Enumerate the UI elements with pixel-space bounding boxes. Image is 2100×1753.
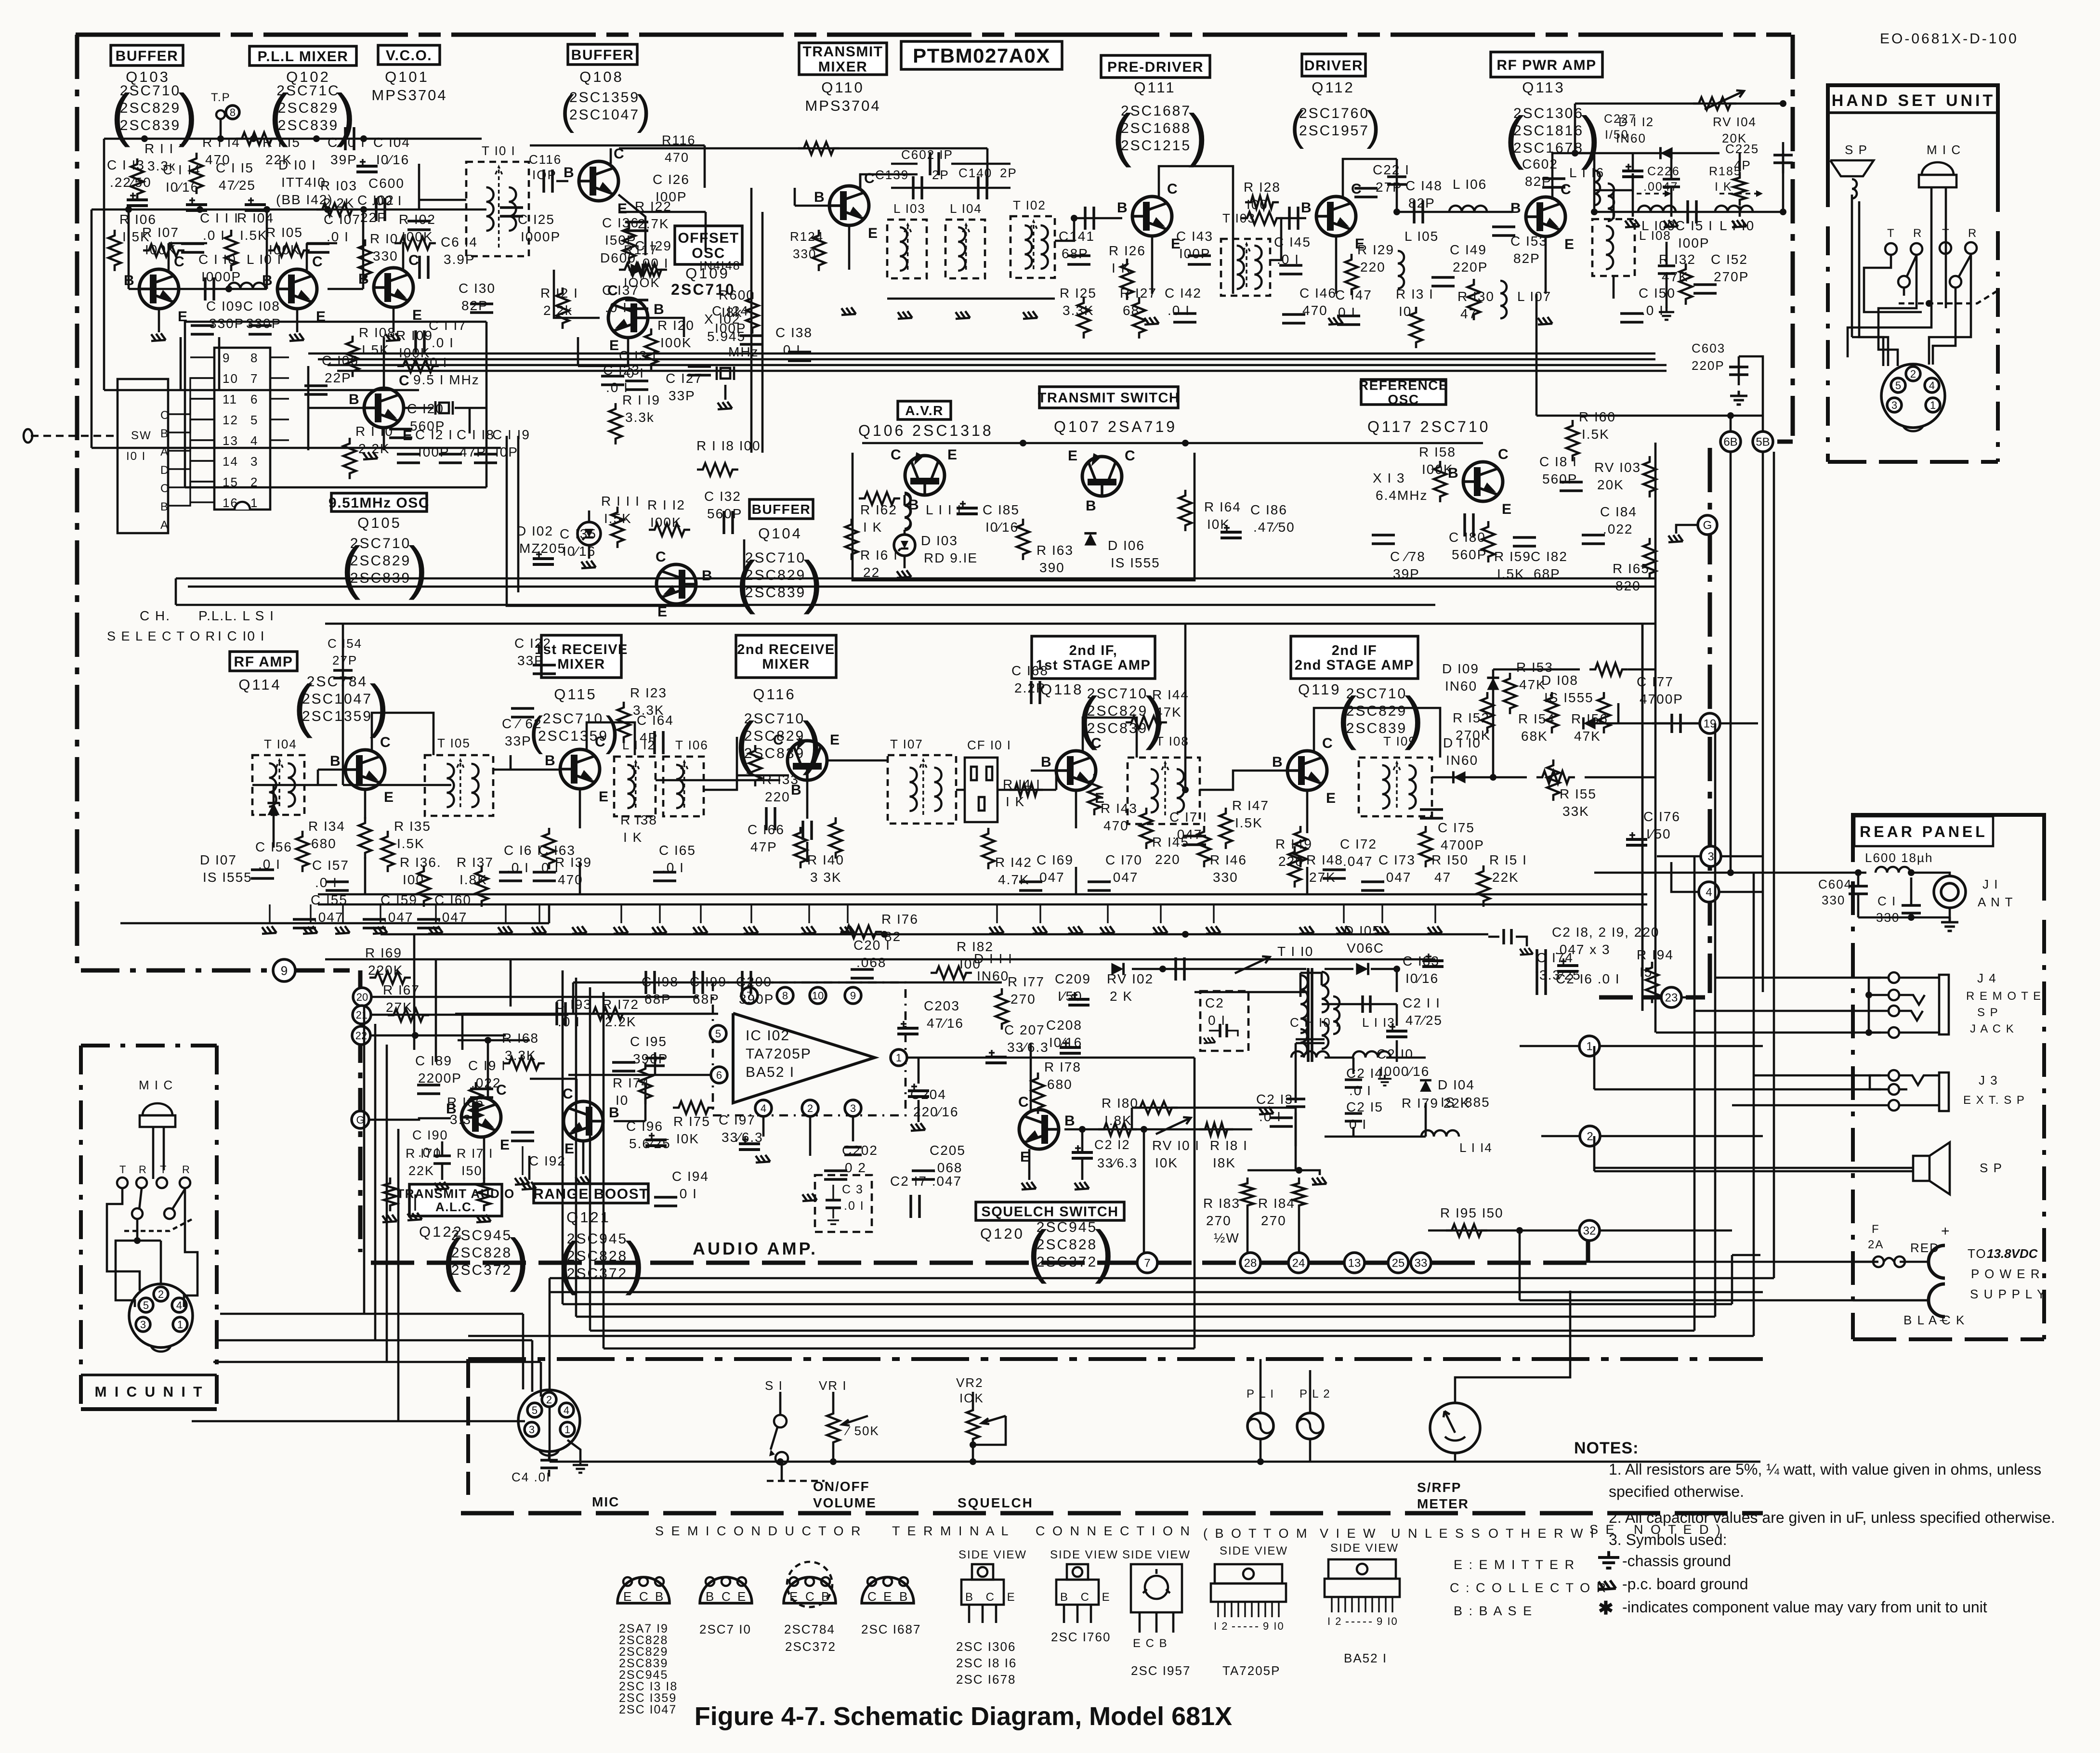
svg-text:47P: 47P — [459, 445, 486, 459]
svg-text:E: E — [609, 338, 620, 353]
svg-text:Q112: Q112 — [1312, 79, 1355, 96]
capacitor C178 — [1372, 535, 1426, 581]
wire T106 out to Q116 — [704, 775, 737, 790]
svg-text:L I I0: L I I0 — [1719, 218, 1755, 233]
svg-text:C I I8: C I I8 — [457, 427, 495, 442]
resistor R109 — [396, 328, 439, 372]
lamp PL1 — [1247, 1359, 1274, 1462]
svg-text:47K: 47K — [1574, 729, 1601, 744]
node 21 — [353, 1006, 568, 1024]
svg-text:T I09: T I09 — [1383, 734, 1417, 748]
label SQUELCH — [958, 1495, 1034, 1510]
label Q110 — [821, 79, 865, 96]
block title 2nd RECEIVE MIXER (Q116) — [736, 635, 836, 678]
resistor R115 — [236, 132, 301, 167]
svg-text:C I07: C I07 — [324, 212, 361, 227]
svg-text:R I47: R I47 — [1232, 798, 1269, 813]
transistor Q113 — [1510, 182, 1575, 252]
svg-text:C I02: C I02 — [357, 193, 394, 208]
svg-text:I00P: I00P — [715, 321, 747, 336]
power supply connection — [1853, 1223, 2046, 1327]
svg-text:D: D — [160, 464, 170, 477]
svg-text:22: 22 — [863, 565, 880, 580]
svg-text:8: 8 — [250, 351, 258, 365]
capacitor C108 — [243, 299, 281, 334]
wire Q115 collector — [587, 722, 635, 755]
svg-text:P.L.L. L S I: P.L.L. L S I — [198, 608, 275, 623]
node IC pin 10 — [810, 987, 826, 1004]
svg-text:220: 220 — [1360, 260, 1386, 275]
svg-text:C I92: C I92 — [529, 1153, 566, 1168]
wire rear J3 line3 — [1732, 1104, 1889, 1107]
svg-text:C200: C200 — [736, 974, 772, 989]
resistor R151 — [1477, 852, 1527, 907]
IC PLL LSI IC101 box — [214, 348, 270, 510]
wire front panel rail — [550, 1458, 1760, 1465]
capacitor C201 — [851, 938, 891, 978]
transformer T107 — [888, 737, 956, 824]
resistor R177 — [996, 974, 1045, 1030]
resistor R127 — [1120, 286, 1157, 339]
node 20 — [353, 988, 698, 1006]
wire mid rail 1 — [176, 577, 1655, 580]
transistor Q106 — [891, 447, 958, 513]
resistor R154 — [1518, 692, 1558, 744]
svg-text:47: 47 — [1434, 870, 1451, 885]
svg-text:C2 I I: C2 I I — [1403, 995, 1441, 1010]
capacitor C174 — [1536, 950, 1581, 982]
svg-text:I0⁄16: I0⁄16 — [1405, 971, 1439, 986]
diode D102 zener circle — [577, 510, 601, 568]
resistor R146 — [1198, 826, 1247, 885]
capacitor C3 dashed box — [815, 1175, 872, 1232]
wire Q102 base drop — [266, 209, 268, 289]
svg-text:): ) — [1188, 102, 1208, 168]
svg-text:C226: C226 — [1647, 165, 1680, 178]
svg-text:D I08: D I08 — [1541, 673, 1578, 688]
svg-text:C140: C140 — [958, 166, 992, 180]
inductor L111 — [905, 493, 962, 530]
svg-text:C I08: C I08 — [243, 299, 280, 314]
svg-text:REAR PANEL: REAR PANEL — [1860, 823, 1988, 840]
transformer T104 — [252, 737, 304, 815]
svg-text:4700P: 4700P — [1441, 837, 1484, 852]
svg-text:C22 I: C22 I — [1373, 162, 1410, 177]
label Q116 types — [735, 710, 822, 775]
resistor R179 label — [1402, 1096, 1470, 1111]
svg-text:T.P: T.P — [211, 91, 231, 104]
svg-text:C I94: C I94 — [672, 1169, 709, 1184]
connector handset 5-pin DIN — [1881, 364, 1945, 431]
svg-text:.0 I: .0 I — [844, 1199, 865, 1213]
capacitor C113 — [107, 157, 152, 206]
svg-text:E: E — [1502, 501, 1512, 517]
svg-text:C: C — [399, 373, 410, 389]
svg-text:C I25: C I25 — [518, 212, 555, 227]
svg-text:C I6 I: C I6 I — [504, 843, 542, 858]
capacitor C175 — [1420, 810, 1484, 852]
node G right — [1668, 515, 1717, 542]
svg-text:I00K: I00K — [660, 335, 692, 350]
capacitor C164 — [637, 713, 674, 754]
transformer T103 — [1221, 211, 1270, 296]
resistor R104 — [225, 210, 274, 271]
svg-text:C: C — [160, 482, 170, 495]
svg-text:SIDE VIEW: SIDE VIEW — [1330, 1542, 1399, 1555]
wire selector to IC links — [168, 378, 214, 506]
wire C603 tap — [1692, 341, 1763, 416]
svg-text:7: 7 — [250, 371, 258, 386]
wire Q112 collector — [1343, 159, 1406, 212]
svg-text:C I55: C I55 — [311, 892, 348, 907]
mic unit wiring — [107, 1188, 197, 1307]
svg-text:C I53: C I53 — [1510, 234, 1548, 249]
capacitor C191 — [468, 1058, 506, 1098]
wire Q101 emitter ground — [386, 307, 400, 341]
svg-text:.0 I: .0 I — [675, 1186, 697, 1201]
label Q121 types — [558, 1230, 644, 1295]
capacitor C177 — [1637, 674, 1683, 706]
label Q103 types — [111, 82, 197, 147]
capacitor C137 — [602, 283, 648, 315]
inductor L103 tank — [887, 201, 927, 278]
svg-text:3: 3 — [529, 1424, 535, 1436]
capacitor C198 — [642, 974, 679, 1007]
label Q111 types — [1112, 102, 1208, 168]
svg-text:IN60: IN60 — [977, 968, 1009, 983]
resistor R137 — [457, 855, 494, 907]
svg-text:C208: C208 — [1046, 1018, 1082, 1033]
wire J1 feed — [1594, 872, 1877, 874]
wire mid rail 4 — [325, 623, 1655, 625]
svg-text:6B: 6B — [1723, 436, 1737, 449]
svg-text:47⁄25: 47⁄25 — [219, 178, 256, 193]
wire Q102 emitter ground — [289, 309, 304, 341]
svg-text:R116: R116 — [662, 133, 696, 147]
svg-text:C I09: C I09 — [206, 299, 243, 314]
svg-text:22K: 22K — [408, 1164, 434, 1178]
svg-text:C I90: C I90 — [412, 1128, 448, 1142]
svg-text:C I64: C I64 — [637, 713, 674, 728]
label EO-0681X-D-100 — [1880, 31, 2019, 47]
svg-text:C I30: C I30 — [459, 281, 496, 296]
svg-text:.047: .047 — [1108, 870, 1139, 885]
svg-text:I00P: I00P — [1678, 235, 1710, 250]
svg-text:D I07: D I07 — [200, 852, 237, 867]
wire PLL IC pin stubs — [190, 357, 289, 502]
svg-text:R I38: R I38 — [620, 812, 657, 827]
label Q109 type — [671, 281, 735, 298]
svg-text:AUDIO AMP.: AUDIO AMP. — [693, 1239, 818, 1258]
wire left border dash-dot line — [75, 35, 79, 970]
wire bottom dist 5 — [590, 856, 1694, 1331]
svg-text:220: 220 — [1155, 852, 1181, 867]
svg-text:L I09: L I09 — [1641, 218, 1676, 233]
resistor R153 — [1504, 660, 1553, 714]
resistor R147 — [1220, 798, 1269, 849]
capacitor C135 — [533, 526, 597, 564]
svg-text:B: B — [330, 753, 341, 769]
wire RF out chain — [1591, 153, 1786, 223]
resistor R174 — [613, 1063, 652, 1108]
legend label SIDE VIEW 3 — [1122, 1548, 1191, 1561]
speaker SP handset — [1830, 143, 1874, 198]
svg-text:2SC1047: 2SC1047 — [569, 107, 640, 123]
svg-text:1. All resistors are 5%, ¼ wat: 1. All resistors are 5%, ¼ watt, with va… — [1609, 1461, 2041, 1478]
svg-text:C: C — [656, 549, 667, 565]
inductor L116 — [1569, 165, 1614, 221]
wire Q114 collector — [372, 713, 433, 755]
legend package 2SA719 group — [617, 1577, 678, 1716]
svg-text:-p.c. board ground: -p.c. board ground — [1622, 1575, 1748, 1593]
capacitor C214 — [1346, 1066, 1383, 1098]
label P.L.L. LSI IC 101 — [198, 608, 275, 643]
svg-text:2SC I306: 2SC I306 — [956, 1639, 1016, 1654]
wire 32 line — [1428, 1227, 1732, 1300]
svg-text:5.6⁄25: 5.6⁄25 — [629, 1136, 671, 1151]
capacitor C2 dashed box — [1200, 991, 1248, 1051]
wire Q112 out to Q113 — [1393, 200, 1512, 223]
svg-text:D I09: D I09 — [1442, 661, 1479, 676]
svg-text:F: F — [1872, 1223, 1880, 1236]
svg-text:R I69: R I69 — [365, 945, 402, 960]
svg-text:C I93: C I93 — [555, 997, 592, 1012]
svg-text:C I8 I: C I8 I — [1539, 454, 1577, 469]
svg-text:4: 4 — [1706, 886, 1712, 899]
label Q108 types — [561, 87, 651, 133]
svg-text:B : B A S E: B : B A S E — [1454, 1604, 1533, 1618]
svg-text:C I I7: C I I7 — [429, 318, 467, 333]
svg-text:330: 330 — [1822, 893, 1845, 907]
svg-text:470: 470 — [1103, 818, 1129, 833]
diode D111 — [974, 951, 1013, 983]
svg-text:2SC7 I0: 2SC7 I0 — [699, 1622, 751, 1636]
wire Q103 emitter ground — [151, 309, 166, 341]
svg-text:BA52 I: BA52 I — [746, 1064, 795, 1080]
capacitor C182 — [1513, 537, 1568, 581]
resistor R144 — [1126, 687, 1189, 729]
svg-text:MIXER: MIXER — [762, 657, 810, 672]
panel HAND SET UNIT box — [1828, 85, 1998, 462]
inductor L106 — [1453, 177, 1487, 192]
resistor R167 — [383, 982, 429, 1021]
label Q112 types — [1290, 103, 1380, 149]
resistor R600 — [719, 288, 759, 334]
wire Q110 base feed — [795, 188, 829, 206]
svg-text:6: 6 — [250, 392, 258, 406]
svg-text:TA7205P: TA7205P — [746, 1046, 812, 1062]
svg-text:(: ( — [1505, 105, 1524, 170]
capacitor C114 — [163, 162, 207, 210]
svg-text:SIDE VIEW: SIDE VIEW — [1122, 1548, 1191, 1561]
svg-text:C2 I0: C2 I0 — [1377, 1047, 1414, 1061]
legend package 2SC1687 — [861, 1577, 921, 1636]
resistor R162 — [859, 492, 900, 535]
svg-text:(: ( — [1337, 685, 1357, 750]
svg-text:R I63: R I63 — [1037, 543, 1074, 558]
svg-text:470: 470 — [1302, 303, 1328, 318]
connector mic unit 5-pin DIN — [129, 1284, 193, 1351]
capacitor C183 — [1403, 954, 1444, 986]
svg-text:2SC I678: 2SC I678 — [956, 1672, 1016, 1687]
svg-text:C I26: C I26 — [653, 172, 690, 187]
svg-text:C I37: C I37 — [602, 283, 639, 298]
wire R117 resistor — [619, 243, 662, 290]
label Q120 types — [1027, 1218, 1114, 1284]
wire rear J4 line2 — [1870, 994, 1889, 996]
resistor R156 — [1571, 692, 1610, 744]
svg-text:C I04: C I04 — [373, 135, 410, 150]
capacitor C153 — [1492, 227, 1548, 266]
wire squelch feed right — [0, 0, 0, 0]
svg-text:C I86: C I86 — [1250, 502, 1287, 517]
wire Q116 output — [827, 760, 965, 790]
svg-text:R I42: R I42 — [995, 855, 1032, 870]
svg-text:J A C K: J A C K — [1970, 1022, 2015, 1035]
svg-text:33: 33 — [1415, 1257, 1428, 1270]
svg-text:3.9P: 3.9P — [444, 252, 475, 267]
block title RF AMP (Q114) — [230, 652, 297, 671]
block title BUFFER (Q104) — [749, 499, 813, 519]
svg-text:220P: 220P — [1692, 358, 1725, 373]
svg-text:20K: 20K — [1722, 131, 1747, 145]
label Q113 — [1522, 79, 1565, 96]
svg-text:E: E — [883, 1589, 892, 1604]
resistor R195 — [1440, 1205, 1504, 1237]
resistor R168 — [502, 1031, 545, 1070]
label Q119 types — [1337, 685, 1424, 750]
svg-text:R I84: R I84 — [1258, 1196, 1295, 1211]
label Q108 — [579, 68, 624, 85]
resistor R129 — [1345, 242, 1394, 295]
svg-text:ITT4I0: ITT4I0 — [281, 175, 326, 190]
svg-text:.0 I: .0 I — [1349, 1083, 1372, 1098]
svg-text:4700P: 4700P — [1640, 692, 1683, 706]
label Q121 — [566, 1209, 611, 1226]
svg-text:O T H E R W I: O T H E R W I — [1488, 1526, 1596, 1541]
svg-text:C600: C600 — [368, 176, 405, 191]
label Q105 — [357, 514, 402, 531]
resistor R102 — [394, 212, 436, 249]
capacitor C101 — [328, 127, 366, 167]
svg-text:R I04: R I04 — [237, 210, 274, 225]
block title OFFSET OSC (Q109) — [675, 226, 742, 264]
label notes text — [1609, 1461, 2055, 1548]
wire Q122 collector — [485, 1037, 491, 1098]
wire PCB boundary right (G bus) — [1599, 448, 1710, 997]
svg-text:2200P: 2200P — [418, 1071, 462, 1086]
resistor R172 — [602, 997, 639, 1029]
wire 2nd IF feedback — [1182, 624, 1189, 793]
capacitor C211 — [1403, 995, 1443, 1028]
label Q110 type — [805, 97, 880, 114]
legend label SIDE VIEW 1 — [958, 1548, 1027, 1561]
svg-text:Figure 4-7. Schematic Diagram,: Figure 4-7. Schematic Diagram, Model 681… — [695, 1702, 1232, 1731]
wire right bundle x3470 — [0, 0, 0, 0]
svg-text:I00P: I00P — [1179, 246, 1211, 261]
resistor R140 — [794, 827, 844, 885]
svg-text:RV I0 I: RV I0 I — [1152, 1138, 1200, 1153]
block title TRANSMIT AUDIO A.L.C. (Q122) — [396, 1184, 514, 1216]
svg-text:C: C — [1091, 735, 1102, 751]
wire Q118 emitter — [1075, 790, 1077, 894]
wire rear SP line — [1594, 1136, 1913, 1171]
block title PTBM027A0X — [901, 41, 1062, 69]
label X103 — [1373, 471, 1428, 503]
resistor R150 — [1419, 826, 1469, 885]
wire bottom dist 7 — [604, 1129, 1194, 1348]
diode D109 — [1442, 661, 1479, 693]
capacitor C210 — [1377, 1047, 1430, 1079]
legend package TA7205P — [1211, 1564, 1286, 1678]
capacitor C138 — [775, 325, 813, 361]
svg-text:47K: 47K — [1155, 705, 1182, 720]
svg-text:16: 16 — [223, 496, 238, 510]
svg-text:T I06: T I06 — [675, 738, 709, 752]
svg-text:D I0 I: D I0 I — [278, 157, 316, 172]
svg-text:C: C — [160, 409, 170, 422]
svg-text:L I03: L I03 — [893, 201, 926, 216]
node IC pin 8 — [777, 987, 793, 1004]
svg-text:B: B — [545, 753, 556, 769]
resistor R170 — [382, 1146, 442, 1222]
label Q122 — [419, 1223, 463, 1240]
svg-text:PRE-DRIVER: PRE-DRIVER — [1107, 59, 1204, 75]
svg-text:I.5K: I.5K — [1497, 566, 1525, 581]
resistor R106 — [108, 212, 157, 271]
svg-text:470: 470 — [665, 150, 689, 165]
label Q117 type — [1367, 418, 1490, 435]
wire T110 secondary out — [1322, 995, 1407, 1062]
resistor R112 — [647, 497, 690, 536]
svg-text:8: 8 — [230, 106, 236, 118]
wire pin1 output — [907, 1058, 1194, 1129]
potentiometer VR1 volume — [767, 1378, 879, 1481]
svg-text:C I42: C I42 — [1165, 286, 1202, 301]
svg-text:D I02: D I02 — [516, 523, 553, 538]
potentiometer VR2 squelch — [956, 1375, 1006, 1462]
svg-text:R I7 I: R I7 I — [457, 1146, 494, 1161]
svg-text:E: E — [384, 789, 394, 805]
svg-text:E: E — [830, 732, 840, 748]
resistor R131 — [1396, 287, 1434, 348]
svg-text:4.7K: 4.7K — [998, 872, 1030, 887]
svg-text:R I72: R I72 — [602, 997, 639, 1012]
resistor R121 — [540, 286, 578, 329]
wire Q112 emitter — [1328, 236, 1343, 325]
node 24 — [1288, 1253, 1309, 1273]
svg-text:2SC784: 2SC784 — [784, 1622, 835, 1636]
svg-text:C I84: C I84 — [1600, 504, 1637, 519]
wire bottom dist 1 — [550, 452, 1774, 1278]
svg-text:R I I4: R I I4 — [202, 135, 240, 150]
svg-text:T E R M I N A L: T E R M I N A L — [892, 1524, 1011, 1538]
svg-text:R I37: R I37 — [457, 855, 494, 870]
svg-text:R I05: R I05 — [266, 225, 303, 240]
wire Q101 bias drop — [362, 209, 365, 289]
wire left PLL verticals — [104, 209, 419, 390]
svg-text:.0 I: .0 I — [606, 380, 629, 395]
svg-text:C I82: C I82 — [1531, 549, 1568, 564]
capacitor C204 — [910, 1087, 959, 1119]
svg-text:Q106 2SC1318: Q106 2SC1318 — [858, 422, 994, 439]
svg-text:330: 330 — [373, 249, 398, 263]
svg-text:BUFFER: BUFFER — [116, 48, 179, 64]
svg-text:E: E — [599, 789, 609, 805]
svg-text:82P: 82P — [461, 298, 488, 313]
svg-text:IN60: IN60 — [1445, 679, 1477, 693]
svg-text:C20 I: C20 I — [853, 938, 891, 953]
